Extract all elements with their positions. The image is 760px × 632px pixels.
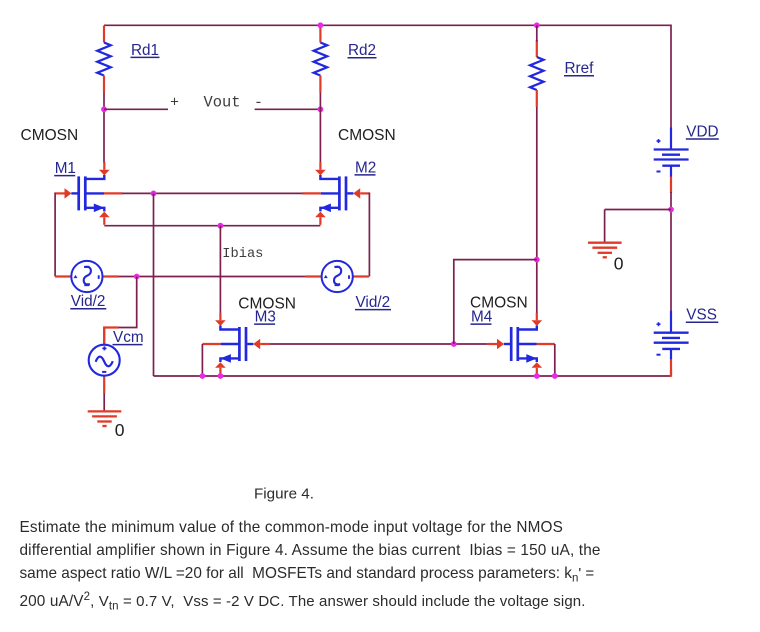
wire: M2 gate down to Vid/2 right <box>368 193 370 277</box>
junction: Rd2/Vout- node <box>318 106 324 112</box>
wire: feedback up and right to Rref node <box>454 260 537 344</box>
junction: Rref / M4 gate feedback <box>534 257 540 263</box>
svg-text:Vcm: Vcm <box>113 329 144 346</box>
transistor M4 symbol <box>488 313 555 376</box>
wire: Rref bottom to M4 drain <box>536 107 538 313</box>
wire: Vout + side <box>104 108 168 110</box>
junction: top rail / Rref <box>534 22 540 28</box>
svg-text:same aspect ratio W/L =20 for: same aspect ratio W/L =20 for all MOSFET… <box>20 565 595 584</box>
svg-text:Vid/2: Vid/2 <box>71 293 106 310</box>
junction: top rail / Rd2 <box>318 22 324 28</box>
junction: 0V node tap <box>668 207 674 213</box>
junction: gate rail / feedback <box>451 341 457 347</box>
resistor Rref body <box>530 40 544 107</box>
junction: bulk rail tap <box>151 191 157 197</box>
wire: VDD minus to VSS plus <box>670 192 672 311</box>
svg-text:Figure 4.: Figure 4. <box>254 485 314 502</box>
resistor Rd1 body <box>97 26 111 93</box>
transistor M2 symbol <box>302 162 369 225</box>
transistor M1 symbol <box>55 162 122 225</box>
svg-text:M1: M1 <box>55 160 76 177</box>
svg-text:VDD: VDD <box>686 123 718 140</box>
wire: bottom VSS rail <box>154 375 672 377</box>
svg-text:+: + <box>170 94 179 111</box>
resistor Rd2 body <box>314 26 328 93</box>
svg-text:M4: M4 <box>471 309 493 326</box>
svg-text:0: 0 <box>115 420 125 440</box>
svg-text:CMOSN: CMOSN <box>338 127 396 144</box>
wire: top VDD rail <box>104 24 671 26</box>
wire: gate rail M3-M4 <box>269 343 487 345</box>
wire: VSS bottom red corner <box>670 370 672 377</box>
source Vcm symbol <box>89 327 120 394</box>
transistor M3 symbol <box>202 313 269 376</box>
svg-text:Estimate the minimum value of: Estimate the minimum value of the common… <box>20 519 564 536</box>
svg-text:Rref: Rref <box>565 60 595 77</box>
wire: Rd2 bottom to M2 drain <box>319 93 321 163</box>
wire: source rail M1-M2 <box>104 225 320 227</box>
svg-text:Rd1: Rd1 <box>131 42 159 59</box>
source Vid/2 right symbol <box>305 261 369 292</box>
wire: Vcm bottom to ground <box>103 394 105 412</box>
wire: red bend into Vcm top <box>104 328 118 346</box>
junction: Rd1/Vout+ node <box>101 106 107 112</box>
wire: ground tap vertical <box>604 210 606 243</box>
wire: Rref top stub <box>536 25 538 41</box>
wire: M1 gate down to Vid/2 left <box>54 193 56 277</box>
svg-text:M2: M2 <box>355 159 376 176</box>
svg-text:Ibias: Ibias <box>222 247 263 262</box>
junction: Vid wire / Vcm tap <box>134 274 140 280</box>
svg-text:0: 0 <box>614 253 624 273</box>
wire: Ibias vertical to M3 drain <box>219 226 221 313</box>
wire: bulk rail M1-M2 <box>122 192 303 194</box>
svg-text:M3: M3 <box>255 309 276 326</box>
ground symbol right <box>588 243 622 258</box>
svg-text:VSS: VSS <box>686 307 717 324</box>
source Vid/2 left symbol <box>55 261 119 292</box>
wire: Rd1 bottom to M1 drain <box>103 93 105 163</box>
junction: bottom rail / M4 source <box>534 373 540 379</box>
svg-text:Vid/2: Vid/2 <box>356 294 391 311</box>
svg-text:CMOSN: CMOSN <box>21 127 79 144</box>
wire: ground tap horizontal <box>605 209 671 211</box>
svg-text:200 uA/V2, Vtn = 0.7 V, Vss =: 200 uA/V2, Vtn = 0.7 V, Vss = -2 V DC. T… <box>20 591 586 612</box>
wire: Vout - side <box>255 108 321 110</box>
wire: right vertical to VDD battery <box>670 25 672 128</box>
wire: M3 bulk drop <box>201 344 203 376</box>
svg-text:Rd2: Rd2 <box>348 42 376 59</box>
junction: bottom rail / M3 bulk <box>200 373 206 379</box>
junction: bottom rail / M3 source <box>218 373 224 379</box>
battery VSS symbol <box>654 311 689 377</box>
ground symbol under Vcm <box>88 411 122 426</box>
battery VDD symbol <box>654 128 689 194</box>
wire: down-left to Vcm <box>118 277 137 328</box>
wire: between Vid/2 sources <box>119 276 306 278</box>
wire: M4 bulk drop <box>554 344 556 376</box>
svg-text:Vout: Vout <box>204 93 241 111</box>
junction: source rail / Ibias <box>218 223 224 229</box>
svg-text:differential amplifier shown i: differential amplifier shown in Figure 4… <box>20 542 601 559</box>
junction: bottom rail / M4 bulk <box>552 373 558 379</box>
wire: bulk drop to bottom rail <box>153 193 155 376</box>
